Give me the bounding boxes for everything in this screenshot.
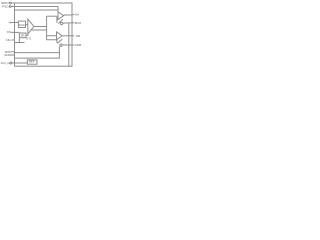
wire vertical V7 from S2	[15, 47, 60, 59]
switch S2 lever	[57, 39, 62, 43]
wire stub box REG down	[18, 38, 20, 43]
svg-text:GT1: GT1	[26, 36, 32, 40]
wire V3 top to switch S1	[47, 15, 57, 17]
wire U2 output to pin OA	[64, 14, 73, 16]
wire PSO across top	[11, 7, 58, 13]
switch S2 contact circle	[60, 44, 62, 46]
box DAC	[18, 21, 25, 27]
box REF	[27, 60, 37, 64]
svg-text:GND: GND	[4, 53, 10, 57]
pin VREF circle	[10, 62, 12, 64]
switch S1 pole	[56, 16, 58, 23]
wire V3 to op-amp U3 input	[47, 35, 57, 37]
wire DAC to op-amp U1	[26, 24, 28, 26]
switch S1 lever	[58, 19, 62, 23]
op-amp U2 triangle	[58, 12, 64, 20]
wire VREF to box REF	[12, 62, 28, 64]
pin tick VDD	[11, 51, 15, 53]
pin SDIO circle	[9, 2, 11, 4]
svg-text:MOA: MOA	[75, 21, 81, 25]
svg-text:OA: OA	[75, 13, 79, 17]
svg-text:OB: OB	[76, 34, 80, 38]
pin tick OA	[72, 14, 75, 16]
wire U3 output to pin OB	[62, 35, 74, 37]
box REG	[19, 33, 26, 38]
wire node to box REG	[11, 31, 19, 33]
svg-text:REF: REF	[29, 59, 35, 63]
pin tick CK	[12, 39, 15, 41]
wire VDD rail	[15, 52, 60, 54]
wire S1 to pin MOA	[63, 22, 74, 24]
chip frame	[15, 3, 73, 66]
wire feedback U1	[31, 29, 47, 31]
labels	[1, 1, 11, 34]
switch S1 contact circle	[60, 22, 62, 24]
pin PSO circle	[9, 6, 11, 8]
svg-text:N: N	[9, 21, 11, 25]
wire second top rail	[15, 9, 59, 11]
svg-text:MOB: MOB	[75, 43, 81, 47]
wire SDIO to frame	[11, 2, 14, 4]
wire node V3 vertical	[46, 16, 48, 40]
wire V3 bottom to switch S2	[47, 40, 57, 43]
pin tick IN	[11, 22, 15, 24]
wire vertical V8	[68, 23, 70, 66]
op-amp U3 triangle	[57, 32, 63, 40]
wire S2 to pin MOB	[62, 44, 74, 46]
wire left inner rail	[15, 42, 25, 44]
wire REG stub	[26, 34, 29, 36]
svg-text:CS: CS	[7, 30, 11, 34]
svg-text:CKx: CKx	[6, 38, 12, 42]
svg-text:Vref_in: Vref_in	[1, 61, 10, 65]
svg-text:DAC: DAC	[19, 23, 25, 27]
wire U1 output	[34, 26, 47, 28]
pin tick GND	[11, 54, 15, 56]
wire node to box DAC	[15, 22, 19, 24]
svg-text:SR: SR	[21, 33, 25, 37]
svg-text:PSO: PSO	[2, 5, 9, 9]
op-amp U1 triangle	[28, 19, 34, 34]
